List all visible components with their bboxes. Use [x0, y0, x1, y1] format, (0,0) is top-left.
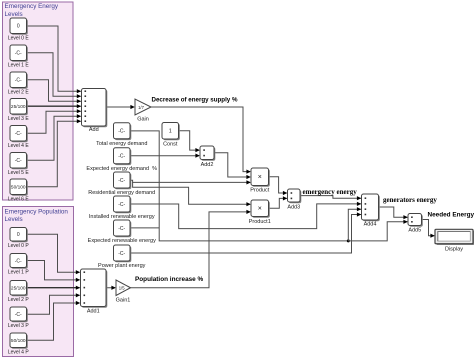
svg-text:-C-: -C-: [118, 202, 125, 208]
svg-text:×: ×: [258, 174, 262, 181]
svg-text:Level 1 E: Level 1 E: [8, 63, 30, 69]
svg-text:Const: Const: [163, 141, 178, 147]
svg-text:Power plant energy: Power plant energy: [98, 263, 146, 269]
svg-text:Level 6 E: Level 6 E: [8, 197, 30, 203]
svg-text:Add: Add: [89, 127, 99, 133]
svg-text:-C-: -C-: [15, 312, 22, 318]
svg-text:Add1: Add1: [87, 309, 100, 315]
svg-text:1/7: 1/7: [138, 105, 144, 110]
svg-text:Add5: Add5: [408, 228, 421, 234]
svg-text:Level 0 P: Level 0 P: [8, 243, 30, 249]
svg-text:25/100: 25/100: [11, 286, 26, 292]
svg-text:Level 2 E: Level 2 E: [8, 90, 30, 96]
svg-text:Product: Product: [250, 188, 269, 194]
svg-text:Expected energy demand %: Expected energy demand %: [86, 166, 157, 172]
svg-text:-C-: -C-: [118, 154, 125, 160]
svg-text:emergency energy: emergency energy: [303, 188, 358, 196]
svg-text:Gain1: Gain1: [116, 297, 131, 303]
svg-text:-C-: -C-: [15, 158, 22, 164]
svg-text:0: 0: [17, 24, 20, 30]
svg-text:Level 3 P: Level 3 P: [8, 323, 30, 329]
svg-text:Levels: Levels: [5, 216, 23, 223]
svg-text:1: 1: [169, 129, 172, 135]
svg-text:Add3: Add3: [287, 205, 300, 211]
svg-text:50/100: 50/100: [11, 185, 26, 191]
svg-text:Level 4 P: Level 4 P: [8, 350, 30, 356]
svg-text:1/5: 1/5: [119, 286, 125, 291]
svg-text:Installed renewable energy: Installed renewable energy: [89, 214, 155, 220]
svg-text:Add4: Add4: [364, 221, 377, 227]
svg-text:-C-: -C-: [15, 131, 22, 137]
svg-text:Level 2 P: Level 2 P: [8, 297, 30, 303]
svg-text:Level 5 E: Level 5 E: [8, 170, 30, 176]
svg-text:Level 0 E: Level 0 E: [8, 36, 30, 42]
svg-text:-C-: -C-: [118, 129, 125, 135]
svg-text:Display: Display: [445, 246, 463, 252]
svg-text:-C-: -C-: [118, 251, 125, 257]
svg-text:Decrease of energy supply %: Decrease of energy supply %: [152, 96, 238, 103]
svg-text:Emergency Population: Emergency Population: [5, 208, 69, 215]
svg-text:Total energy demand: Total energy demand: [96, 141, 147, 147]
svg-text:Expected renewable energy: Expected renewable energy: [88, 238, 156, 244]
svg-text:-C-: -C-: [118, 178, 125, 184]
svg-text:-C-: -C-: [15, 51, 22, 57]
svg-text:Needed Energy: Needed Energy: [428, 212, 474, 219]
svg-text:-C-: -C-: [15, 78, 22, 84]
svg-text:Gain: Gain: [137, 117, 149, 123]
svg-text:0: 0: [17, 232, 20, 238]
svg-text:Product1: Product1: [249, 219, 271, 225]
svg-text:Population increase %: Population increase %: [135, 276, 204, 283]
svg-text:50/100: 50/100: [11, 338, 26, 344]
svg-text:generators energy: generators energy: [383, 196, 437, 204]
svg-text:Add2: Add2: [201, 162, 214, 168]
svg-text:25/100: 25/100: [11, 104, 26, 110]
svg-text:Level 1 P: Level 1 P: [8, 270, 30, 276]
svg-text:×: ×: [258, 206, 262, 213]
svg-text:-C-: -C-: [15, 258, 22, 264]
svg-text:Levels: Levels: [5, 11, 23, 18]
svg-text:Level 3 E: Level 3 E: [8, 116, 30, 122]
svg-text:Level 4 E: Level 4 E: [8, 143, 30, 149]
svg-text:-C-: -C-: [118, 226, 125, 232]
svg-text:Residential energy demand: Residential energy demand: [88, 190, 155, 196]
svg-text:Emergency Energy: Emergency Energy: [5, 3, 59, 10]
